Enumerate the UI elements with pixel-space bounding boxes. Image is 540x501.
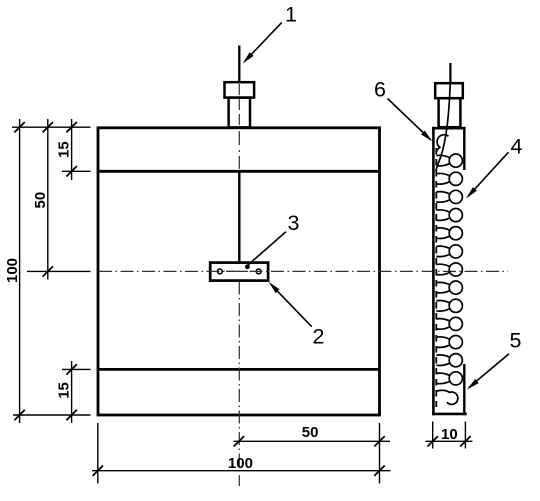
dimension line 10: [426, 436, 473, 446]
cap stem front view: [229, 98, 250, 128]
side plate left edge: [432, 127, 435, 415]
dimension line 100 bottom: [92, 466, 391, 476]
side cap head: [435, 83, 463, 98]
dimension line 15 upper left: [66, 119, 76, 180]
side view rod: [449, 63, 451, 84]
horizontal centerline: [99, 270, 508, 272]
coil loop 10: [436, 299, 462, 312]
plate front upper rib line: [98, 170, 380, 173]
side cap stem: [439, 98, 461, 127]
svg-text:2: 2: [313, 325, 325, 349]
coil last hook: [436, 390, 458, 404]
coil loop 6: [436, 227, 462, 240]
10-dim extension line right: [464, 422, 466, 449]
leader 2: [269, 282, 312, 327]
rod above cap (item 1): [238, 46, 240, 83]
leader 3: [245, 232, 286, 269]
coil loop 4: [436, 190, 462, 203]
rod inside plate (item 3 stem): [238, 171, 240, 263]
coil loop 13: [436, 354, 462, 367]
left extension line at lower 15: [62, 368, 91, 370]
coil loop 14: [436, 372, 462, 385]
coil loop 8: [436, 263, 462, 276]
svg-text:4: 4: [511, 135, 523, 159]
coil loop 3: [436, 172, 462, 185]
cap head front view: [225, 82, 255, 97]
coil loop 11: [436, 317, 462, 330]
coil loop 2: [436, 154, 462, 167]
leader 1: [243, 22, 282, 63]
plate front lower rib line: [98, 368, 380, 371]
dimension line 50 bottom: [234, 436, 391, 446]
leader 5: [467, 354, 509, 390]
left extension line at center: [27, 270, 91, 272]
svg-text:50: 50: [32, 192, 49, 209]
leader 4: [466, 152, 509, 198]
coil loop 12: [436, 336, 462, 349]
bottom extension line left: [97, 423, 99, 484]
plate front view outline: [98, 128, 380, 415]
left extension line bottom: [13, 414, 91, 416]
coil loop 5: [436, 209, 462, 222]
svg-text:50: 50: [302, 424, 319, 441]
svg-text:15: 15: [55, 141, 72, 158]
centerline in top band: [238, 131, 240, 169]
svg-text:10: 10: [441, 426, 458, 443]
dimension line 50 left: [43, 119, 53, 280]
curved wire item 6: [436, 84, 451, 171]
dimension line 100 left: [14, 119, 24, 423]
cap centerline dashes: [238, 84, 240, 127]
bracket hole right: [256, 269, 261, 274]
bracket rectangle (item 2): [210, 263, 268, 281]
coil first loop: [436, 135, 448, 152]
svg-text:100: 100: [4, 258, 21, 283]
coil loop 7: [436, 245, 462, 258]
svg-text:15: 15: [55, 382, 72, 399]
coil inner dashed support line: [435, 148, 437, 407]
vertical centerline below bracket: [238, 282, 240, 487]
bottom extension line right: [379, 423, 381, 484]
side plate bottom edge: [432, 413, 467, 416]
coil loop 9: [436, 281, 462, 294]
side plate right edge upper segment: [463, 127, 465, 170]
svg-text:5: 5: [510, 329, 522, 353]
dimension line 15 lower left: [66, 361, 76, 423]
svg-text:100: 100: [228, 455, 253, 472]
svg-text:3: 3: [288, 211, 300, 235]
side plate top edge: [432, 127, 466, 130]
leader 6: [388, 99, 433, 142]
svg-text:6: 6: [374, 78, 386, 102]
left extension line top: [12, 126, 91, 128]
bracket inner centerline dashes: [226, 270, 253, 272]
left extension line at 15: [62, 170, 91, 172]
10-dim extension line left: [432, 422, 434, 449]
bracket hole left: [217, 269, 222, 274]
side plate right edge lower segment: [463, 364, 465, 415]
svg-text:1: 1: [285, 3, 297, 27]
